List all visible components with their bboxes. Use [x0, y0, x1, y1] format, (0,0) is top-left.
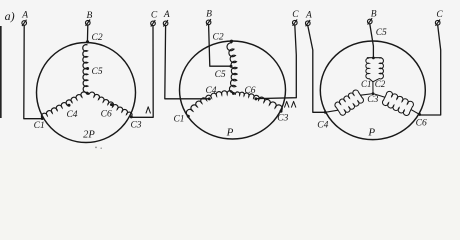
winding phase A star-to-C1 (motor 2) [186, 91, 233, 116]
wire pair-to-C6 (motor 3) [411, 110, 420, 115]
coil pair top bar (motor 3) [367, 57, 381, 59]
svg-text:C5: C5 [92, 67, 103, 77]
coil left of phase B pair (motor 3) [366, 58, 369, 79]
wire lead A to C1 (motor 1) [24, 26, 42, 119]
svg-text:C4: C4 [66, 110, 77, 120]
svg-text:C5: C5 [215, 70, 226, 80]
svg-text:C6: C6 [101, 110, 112, 120]
winding phase B C2-to-star (motor 1) [83, 45, 88, 93]
coil pair bottom converge (motor 3) [369, 79, 373, 82]
terminal B (motor 1) [86, 20, 91, 26]
stator circle (motor 2) [180, 41, 286, 139]
wire lead C to C3 (motor 1) [132, 26, 154, 117]
svg-text:C4: C4 [317, 120, 328, 130]
stator circle (motor 3) [320, 41, 425, 140]
coil lower of phase A pair (motor 3) [340, 98, 364, 115]
wire lead C to C6 (motor 3) [420, 25, 441, 115]
wire lead A to C4 (motor 3) [308, 26, 325, 113]
winding phase C star-to-C3 (motor 2) [235, 92, 282, 111]
tap junction C6 (motor 2) [254, 97, 257, 100]
wire star-to-pair left (motor 3) [361, 94, 374, 96]
svg-text:A: A [21, 10, 28, 20]
star point node (motor 3) [372, 92, 375, 95]
tap junction C4 (motor 2) [208, 97, 211, 100]
svg-text:C: C [292, 10, 299, 20]
node C2 on circle (motor 2) [230, 40, 233, 43]
tap dot C6 (motor 1) [110, 103, 113, 106]
wire lead B to C5 (motor 3) [370, 24, 374, 58]
svg-text:а): а) [5, 9, 15, 23]
svg-text:C2: C2 [92, 33, 103, 43]
wire lead B to C5 tap (motor 2) [209, 25, 231, 66]
svg-text:C2: C2 [213, 33, 224, 43]
terminal A (motor 1) [22, 20, 27, 26]
tap dot C4 (motor 1) [68, 104, 71, 107]
svg-text:C3: C3 [130, 120, 141, 130]
wire star-to-pair right (motor 3) [373, 94, 385, 98]
tap dot C5 (motor 1) [86, 67, 89, 70]
svg-text:C5: C5 [376, 28, 387, 38]
svg-text:C3: C3 [277, 114, 288, 124]
winding phase B C2-to-star (motor 2) [227, 43, 237, 93]
junction C3 (motor 1) [130, 115, 133, 118]
phase A pair end caps (motor 3) [359, 92, 363, 98]
junction C1 (motor 1) [41, 117, 44, 120]
node C2 (motor 1) [86, 40, 89, 43]
terminal C (motor 2) [293, 19, 298, 25]
left page-edge mark [0, 26, 2, 118]
wire lead A to C4 tap (motor 2) [165, 26, 209, 99]
wire pair-to-C4 (motor 3) [325, 110, 338, 112]
svg-text:2P: 2P [83, 130, 95, 141]
svg-text:A: A [163, 10, 170, 20]
wire stub to star point (motor 3) [372, 82, 374, 94]
svg-text:C3: C3 [367, 95, 378, 105]
svg-text:C1: C1 [34, 121, 45, 131]
svg-text:P: P [226, 127, 234, 139]
terminal B (motor 2) [206, 19, 211, 25]
tap junction C5 (motor 2) [230, 65, 233, 68]
svg-text:P: P [367, 127, 375, 139]
svg-text:C: C [151, 11, 158, 21]
svg-text:A: A [305, 10, 312, 20]
wire lead B to C2 (motor 1) [86, 25, 88, 43]
terminal C (motor 3) [435, 19, 440, 25]
phase C pair end caps (motor 3) [384, 94, 387, 100]
coil upper of phase C pair (motor 3) [386, 91, 413, 106]
star point node (motor 1) [87, 92, 90, 95]
coil upper of phase A pair (motor 3) [335, 90, 359, 107]
svg-text:B: B [371, 10, 377, 20]
junction C6 (motor 3) [418, 113, 421, 116]
svg-text:B: B [86, 11, 92, 21]
connection mark lambda-lambda (motor 2) [284, 101, 289, 107]
winding phase A star-to-C1 (motor 1) [41, 92, 86, 118]
terminal A (motor 2) [163, 20, 168, 26]
terminal C (motor 1) [151, 20, 156, 26]
coil right of phase B pair (motor 3) [379, 58, 383, 79]
connection mark lambda (motor 1) [146, 107, 151, 114]
coil lower of phase C pair (motor 3) [382, 100, 409, 115]
junction C5 at coil bar (motor 3) [372, 57, 375, 60]
junction C1 (motor 2) [187, 115, 190, 118]
svg-text:C: C [436, 10, 443, 20]
svg-text:C6: C6 [416, 118, 427, 128]
junction C4 (motor 3) [324, 111, 327, 114]
wire lead C to C6 tap (motor 2) [256, 25, 296, 98]
junction C3 (motor 2) [280, 110, 283, 113]
star point node (motor 2) [232, 92, 235, 95]
stator circle (motor 1) [37, 43, 136, 143]
winding phase C star-to-C3 (motor 1) [89, 92, 132, 117]
paper speck [95, 147, 97, 149]
terminal A (motor 3) [306, 20, 311, 26]
terminal B (motor 3) [368, 18, 373, 24]
svg-text:C2: C2 [375, 79, 386, 89]
svg-text:B: B [206, 9, 212, 19]
svg-text:C1: C1 [361, 79, 372, 89]
svg-text:C1: C1 [173, 114, 184, 124]
